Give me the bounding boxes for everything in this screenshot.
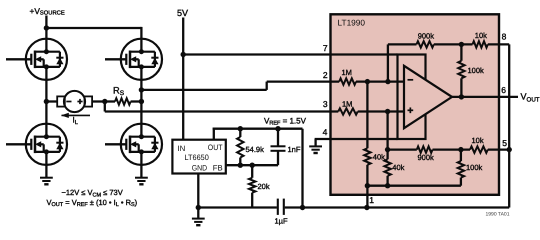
wire Q3 gate stub: [6, 143, 31, 145]
ground LT6650: [192, 219, 205, 226]
wire right bridge mid (Q2 source to Q4 drain): [140, 67, 142, 137]
transistor Q1 (top left NMOS): [26, 39, 67, 80]
wire Q2 drain: [140, 27, 142, 52]
svg-text:40k: 40k: [373, 152, 385, 161]
svg-text:54.9k: 54.9k: [246, 145, 265, 154]
resistor R5 100k (top): [458, 61, 464, 79]
svg-text:LT6650: LT6650: [185, 153, 210, 162]
svg-text:100k: 100k: [466, 163, 483, 172]
wire top rail (VSOURCE to Q2 drain): [45, 27, 141, 29]
svg-text:7: 7: [323, 43, 328, 53]
node 20k top junction: [250, 163, 255, 168]
wire 1nF bottom riser: [277, 151, 279, 165]
R2 label 1M: [342, 99, 352, 108]
figure id 1990 TA01: [485, 211, 509, 217]
R8 label 900k: [418, 153, 435, 162]
wire bottom rail right of C2: [285, 206, 510, 208]
wire LT6650 OUT riser: [213, 128, 215, 140]
+VSOURCE supply label: [30, 6, 65, 17]
R10 label 100k: [466, 163, 483, 172]
node GND junction: [196, 205, 201, 210]
svg-text:8: 8: [502, 31, 507, 41]
svg-text:−12V ≤ VCM ≤ 73V: −12V ≤ VCM ≤ 73V: [62, 188, 123, 198]
wire right feedback vertical pin8-pin5-bottom: [508, 44, 510, 207]
wire VREF rail: [213, 128, 303, 130]
resistor R1 1M (pin2): [339, 78, 356, 84]
wire motor right lead: [92, 100, 106, 102]
resistor R10 100k (bottom) leads: [460, 150, 462, 186]
resistor RS: [115, 98, 131, 104]
svg-text:5: 5: [502, 138, 507, 148]
resistor R8 900k (bottom): [417, 146, 433, 152]
svg-text:10k: 10k: [475, 31, 487, 40]
node VREF riser bottom junction: [300, 205, 305, 210]
node 40k#2 top junction: [385, 109, 390, 114]
pin 8 label: [502, 31, 507, 41]
node pin1 bottom junction: [364, 205, 369, 210]
20k label: [258, 182, 270, 191]
wire op-amp output row: [452, 96, 518, 98]
U2 pin label GND: [192, 164, 208, 173]
wire U1 bottom rail: [367, 185, 461, 187]
transistor Q2 (top right NMOS): [121, 39, 162, 80]
1uF label: [275, 217, 288, 226]
node feedback/minus junction: [385, 79, 390, 84]
motor M1 (DC motor with brushes): [57, 91, 92, 112]
svg-text:GND: GND: [192, 164, 208, 173]
R7 label 40k: [392, 163, 404, 172]
resistor R7 40k#2: [384, 159, 390, 176]
54.9k label: [246, 145, 265, 154]
U2 pin label IN: [178, 144, 186, 153]
R3 label 900k: [418, 32, 435, 41]
svg-text:FB: FB: [213, 164, 223, 173]
svg-text:OUT: OUT: [208, 143, 223, 152]
svg-text:1µF: 1µF: [275, 217, 288, 226]
resistor R9 10k (bottom): [470, 146, 488, 152]
RS label: [113, 85, 125, 97]
svg-text:3: 3: [323, 99, 328, 109]
wire pin3 net: RS left drop: [104, 102, 106, 112]
node top 100k junction: [459, 42, 464, 47]
resistor 54.9k: [237, 137, 243, 158]
pin 6 label: [501, 85, 506, 95]
wire pin5 exit: [488, 148, 509, 150]
svg-text:5V: 5V: [177, 8, 188, 18]
svg-text:20k: 20k: [258, 182, 270, 191]
wire bottom row mid: [433, 148, 471, 150]
resistor R3 900k (top): [417, 41, 434, 47]
svg-text:900k: 900k: [418, 153, 435, 162]
node VSOURCE junction: [44, 25, 49, 30]
wire Q1 drain: [45, 28, 47, 52]
5V supply label: [177, 8, 188, 18]
node RS left junction: [102, 99, 107, 104]
svg-text:LT1990: LT1990: [338, 17, 366, 27]
wire Q2 gate stub: [105, 58, 126, 60]
resistor R7 40k#2 leads: [386, 112, 388, 186]
node pin5 junction: [507, 147, 512, 152]
ground pin4: [309, 146, 322, 153]
resistor 54.9k leads: [239, 129, 241, 166]
transistor Q4 (bottom right NMOS): [121, 124, 162, 165]
node 1nF top junction: [275, 126, 280, 131]
resistor R6 40k#1 leads: [366, 82, 368, 186]
pin 1 label: [369, 195, 374, 205]
U1 label LT1990: [338, 17, 366, 27]
resistor R4 10k (top): [473, 41, 488, 47]
wire top feedback row mid: [434, 43, 473, 45]
wire pin1 riser: [366, 186, 368, 208]
op-amp A1: [404, 66, 452, 128]
svg-text:1990 TA01: 1990 TA01: [485, 211, 509, 217]
wire Q3 source to ground: [45, 152, 47, 178]
wire pin4 ground riser: [314, 139, 316, 146]
wire minus node row: [356, 80, 404, 82]
wire FB row: [226, 164, 278, 166]
svg-text:1nF: 1nF: [288, 145, 301, 154]
node bottom 100k junction: [458, 147, 463, 152]
svg-text:1M: 1M: [342, 99, 352, 108]
1nF label: [288, 145, 301, 154]
wire Q4 gate stub: [105, 143, 126, 145]
pin 4 label: [323, 127, 328, 137]
wire top feedback row left: [388, 43, 417, 45]
IL current arrow: [61, 113, 90, 118]
R4 label 10k: [475, 31, 487, 40]
pin 7 label: [323, 43, 328, 53]
ground Q4: [135, 178, 148, 185]
resistor R2 1M (pin3): [338, 108, 357, 114]
capacitor C1 1nF: [271, 129, 286, 151]
node output/100k junction: [459, 94, 464, 99]
svg-text:6: 6: [501, 85, 506, 95]
svg-text:10k: 10k: [472, 136, 484, 145]
wire Q1 gate stub: [6, 58, 31, 60]
wire motor left lead: [46, 100, 57, 102]
wire pin3 net to LT1990: [105, 110, 338, 112]
U2 pin label OUT: [208, 143, 223, 152]
resistor R10 100k (bottom): [458, 161, 464, 178]
U2 pin label FB: [213, 164, 223, 173]
wire Q4 source to ground: [140, 152, 142, 178]
resistor R6 40k#1: [364, 148, 370, 165]
wire pin2 net into LT1990: [267, 80, 340, 82]
transistor Q3 (bottom left NMOS): [26, 124, 67, 165]
common-mode range note: [62, 188, 123, 198]
node 40k#1 top junction: [365, 79, 370, 84]
resistor 20k: [249, 178, 255, 193]
svg-text:40k: 40k: [392, 163, 404, 172]
ground Q3: [40, 178, 53, 185]
wire bottom rail left of C2: [198, 206, 277, 208]
wire pin8 exit: [488, 43, 509, 45]
svg-text:1M: 1M: [342, 68, 352, 77]
U1 internal supply rect: [398, 55, 426, 140]
svg-text:IN: IN: [178, 144, 186, 153]
node 900k bottom tap junction: [385, 147, 390, 152]
R1 label 1M: [342, 68, 352, 77]
wire RS left lead: [105, 100, 115, 102]
pin 5 label: [502, 138, 507, 148]
R9 label 10k: [472, 136, 484, 145]
wire pin4 net ground to U1 rect: [315, 138, 398, 140]
node Q2 source sense junction: [139, 87, 144, 92]
R5 label 100k: [468, 66, 485, 75]
node 54.9k bottom junction: [238, 163, 243, 168]
node 5V / pin7 junction: [181, 52, 186, 57]
svg-text:2: 2: [323, 70, 328, 80]
wire feedback vertical: [387, 44, 389, 81]
wire 5V rail down to LT6650 IN: [182, 18, 184, 140]
wire bottom 900k row left: [388, 148, 417, 150]
wire pin2 net step up: [266, 82, 268, 90]
wire left bridge mid (Q1 source to Q3 drain): [45, 67, 47, 137]
node bottom rail/pin1 junction: [365, 183, 370, 188]
U2 label LT6650: [185, 153, 210, 162]
svg-text:100k: 100k: [468, 66, 485, 75]
node 54.9k top junction: [238, 126, 243, 131]
wire +VSOURCE stub down to top rail: [45, 16, 47, 29]
pin 3 label: [323, 99, 328, 109]
wire plus node row: [358, 110, 404, 112]
node motor left junction: [44, 99, 49, 104]
R6 label 40k: [373, 152, 385, 161]
node RS right junction: [139, 99, 144, 104]
resistor 20k leads: [251, 165, 253, 207]
capacitor C2 1uF: [278, 199, 284, 215]
LT1990 difference amplifier U1 (shaded block): [331, 14, 500, 195]
output equation note: [47, 198, 138, 208]
resistor R5 100k (top) leads: [460, 44, 462, 97]
node 40k#2 bottom junction: [385, 183, 390, 188]
svg-text:1: 1: [369, 195, 374, 205]
wire VREF riser down to bottom rail: [301, 129, 303, 208]
wire pin2 net: Q2 source to step: [141, 89, 266, 91]
svg-text:900k: 900k: [418, 32, 435, 41]
VREF label: [264, 116, 307, 126]
IL label: [73, 116, 79, 126]
wire pin7 net 5V to U1 rect: [183, 53, 397, 55]
VOUT label: [521, 91, 540, 103]
wire RS right lead: [131, 100, 142, 102]
wire LT6650 GND drop: [197, 174, 199, 219]
pin 2 label: [323, 70, 328, 80]
svg-text:4: 4: [323, 127, 328, 137]
regulator U2 LT6650 box: [172, 140, 225, 174]
